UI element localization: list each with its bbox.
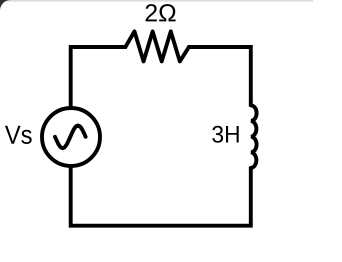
inductor L1 (3H) coil, 4 bumps bulging right xyxy=(251,105,257,168)
wire: top wire from resistor + top-right corner + right vertical down to inductor xyxy=(188,47,251,107)
dark page corner (top-left rounded corner of white card) xyxy=(0,0,11,10)
resistor R1 (2 ohm) zigzag xyxy=(125,31,188,61)
label 3H (inductor value) xyxy=(212,126,238,143)
wire: left vertical above source + top-left corner + top wire into resistor xyxy=(71,47,127,108)
top window border line xyxy=(0,0,313,2)
sine wave inside source xyxy=(55,126,86,148)
label Vs (source name) xyxy=(5,126,32,144)
voltage source Vs circle xyxy=(42,108,100,166)
label 2Ω (resistor value) xyxy=(146,4,176,21)
wire: right vertical below inductor + bottom wire + left vertical up to source xyxy=(71,166,251,226)
